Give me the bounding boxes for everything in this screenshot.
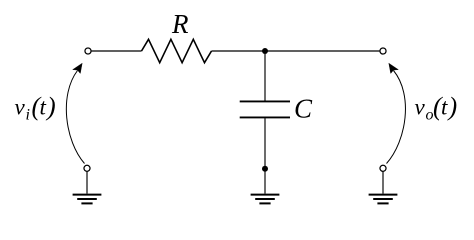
label v_o(t) [415, 92, 458, 124]
capacitor C [240, 101, 290, 117]
svg-text:v: v [415, 95, 426, 120]
resistor R [142, 39, 212, 62]
terminal: bottom-left open circle [84, 165, 90, 171]
terminal: bottom-right open circle [380, 165, 386, 171]
svg-text:v: v [15, 95, 26, 120]
wire: capacitor bottom plate down to ground [264, 118, 266, 193]
node: junction dot above middle ground [262, 166, 268, 172]
svg-text:t: t [40, 95, 47, 120]
ground: right (output reference) [369, 195, 398, 204]
ground: left (input reference) [73, 195, 102, 204]
svg-text:t: t [441, 95, 448, 120]
voltage arrow: output v_o(t) curved arrow [387, 63, 406, 163]
node: junction dot at top of capacitor branch [262, 48, 268, 54]
label C value [294, 94, 313, 124]
voltage arrow: input v_i(t) curved arrow [66, 63, 84, 163]
terminal: input top-left open circle [85, 48, 91, 54]
svg-text:C: C [294, 94, 313, 124]
wire: bottom-right terminal to right ground [382, 171, 384, 193]
wire: bottom-left terminal to left ground [86, 171, 88, 193]
svg-text:): ) [447, 92, 458, 121]
wire: junction down to capacitor top plate [264, 51, 266, 101]
label R value [171, 9, 189, 39]
terminal: output top-right open circle [380, 48, 386, 54]
ground: middle (below capacitor) [251, 195, 280, 204]
svg-text:i: i [26, 107, 30, 124]
svg-text:): ) [45, 92, 56, 121]
label v_i(t) [15, 92, 56, 124]
wire: resistor to output terminal (through node) [212, 50, 381, 52]
svg-text:R: R [171, 9, 189, 39]
wire: left terminal to resistor [91, 50, 141, 52]
